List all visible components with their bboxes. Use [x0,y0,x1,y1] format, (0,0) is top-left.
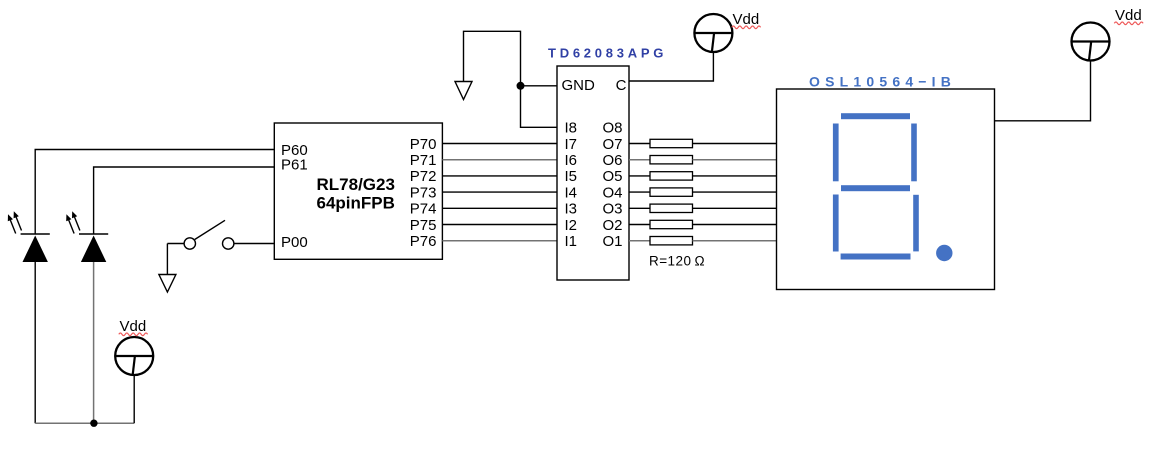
pin label O3 [602,201,622,218]
svg-text:I3: I3 [565,201,578,218]
wire P70 to I7 [442,143,557,145]
svg-text:RL78/G23: RL78/G23 [317,175,395,194]
resistor R5 [650,204,693,212]
svg-text:O4: O4 [602,184,622,201]
pin label P61 [281,157,308,174]
svg-text:OSL10564−IB: OSL10564−IB [809,74,956,90]
wire R6 to display [693,224,777,226]
resistor R6 [650,220,693,228]
wire bottom rail [35,422,134,424]
wire SW1 to ground [166,244,168,275]
wire P76 to I1 [442,240,557,242]
svg-text:O2: O2 [602,217,622,234]
svg-text:I8: I8 [565,120,578,137]
pin label P76 [410,233,437,250]
wire P74 to I3 [442,207,557,209]
IC U1 RL78/G23 [274,123,442,259]
segment F top-left [833,124,839,182]
svg-text:P73: P73 [410,184,437,201]
pin label O2 [602,217,622,234]
pin label P00 [281,234,308,251]
label TD62083APG [548,46,667,61]
pin label GND [562,77,596,94]
segment DP dot [936,245,952,261]
wire P71 to I6 [442,159,557,161]
svg-text:64pinFPB: 64pinFPB [317,194,395,213]
svg-text:I1: I1 [565,233,578,250]
svg-text:I4: I4 [565,184,578,201]
svg-text:R=120 Ω: R=120 Ω [649,254,705,269]
power Vdd symbol top-middle [694,14,732,52]
wire R5 to display [693,207,777,209]
pin label I1 [565,233,578,250]
svg-text:P00: P00 [281,234,308,251]
segment D bottom [841,254,911,260]
wire D1 anode down [34,262,36,423]
ground symbol top [455,82,472,100]
wire O5 to R3 [629,175,650,177]
svg-text:O5: O5 [602,168,622,185]
resistor R3 [650,172,693,180]
pin label P70 [410,136,437,153]
pin label O8 [602,120,622,137]
wire O1 to R7 [629,240,650,242]
pin label O7 [602,136,622,153]
svg-text:P71: P71 [410,152,437,169]
wire O6 to R2 [629,159,650,161]
power Vdd symbol top-right [1072,23,1110,61]
pin label C [616,77,627,94]
wire D2 anode down [93,262,95,423]
label Vdd top-middle [732,11,761,29]
wire R4 to display [693,191,777,193]
pin label P74 [410,201,437,218]
label Vdd top-right [1114,7,1143,25]
pin label P75 [410,217,437,234]
pin label O1 [602,233,622,250]
pin label I4 [565,184,578,201]
wire P72 to I5 [442,175,557,177]
pin label P73 [410,184,437,201]
wire display to Vdd top-right [995,61,1091,121]
pin label O6 [602,152,622,169]
wire junction to GND [521,85,558,87]
LED D2 [66,211,108,262]
wire P73 to I4 [442,191,557,193]
svg-text:TD62083APG: TD62083APG [548,46,667,61]
segment A top [841,113,910,119]
svg-text:O3: O3 [602,201,622,218]
pin label P60 [281,142,308,159]
svg-text:P61: P61 [281,157,308,174]
svg-text:I6: I6 [565,152,578,169]
resistor R2 [650,156,693,164]
svg-text:C: C [616,77,627,94]
wire O7 to R1 [629,143,650,145]
pin label P72 [410,168,437,185]
svg-text:P75: P75 [410,217,437,234]
wire D1 cathode to P60 [35,150,274,235]
junction dot bottom rail [90,420,97,427]
svg-text:O8: O8 [602,120,622,137]
wire Vdd drop bottom-left [133,376,135,424]
wire R7 to display [693,240,777,242]
wire O4 to R4 [629,191,650,193]
wire R3 to display [693,175,777,177]
svg-text:P76: P76 [410,233,437,250]
svg-text:O6: O6 [602,152,622,169]
label RL78/G23 64pinFPB [317,175,395,213]
svg-text:P74: P74 [410,201,437,218]
switch SW1 [167,220,234,249]
pin label O5 [602,168,622,185]
label OSL10564-IB [809,74,956,90]
pin label I3 [565,201,578,218]
resistor R4 [650,188,693,196]
pin label I7 [565,136,578,153]
junction dot GND net [517,82,525,90]
wire R2 to display [693,159,777,161]
wire ground net to GND pin [464,31,558,127]
pin label P71 [410,152,437,169]
wire C pin to Vdd [629,52,713,81]
wire O2 to R6 [629,224,650,226]
svg-text:O1: O1 [602,233,622,250]
wire D2 cathode to P61 [94,167,275,234]
pin label I2 [565,217,578,234]
pin label I8 [565,120,578,137]
LED D1 [8,211,50,262]
label Vdd bottom-left [119,318,148,336]
resistor R7 [650,237,693,245]
svg-text:I2: I2 [565,217,578,234]
segment B top-right [911,124,917,182]
segment E bottom-left [833,195,839,252]
pin label O4 [602,184,622,201]
svg-text:O7: O7 [602,136,622,153]
wire O3 to R5 [629,207,650,209]
segment C bottom-right [913,195,919,252]
ground symbol left [159,275,176,293]
svg-text:P72: P72 [410,168,437,185]
value label R=120ohm [649,254,705,269]
display DS1 OSL10564-IB body [777,89,995,290]
svg-text:I7: I7 [565,136,578,153]
IC U2 TD62083APG [557,66,629,280]
resistor R1 [650,139,693,147]
segment G middle [841,185,910,191]
wire R1 to display [693,143,777,145]
svg-text:P70: P70 [410,136,437,153]
power Vdd symbol bottom-left [115,337,153,375]
wire SW1 to P00 [234,243,274,245]
wire P75 to I2 [442,224,557,226]
pin label I5 [565,168,578,185]
svg-text:I5: I5 [565,168,578,185]
pin label I6 [565,152,578,169]
svg-text:GND: GND [562,77,596,94]
